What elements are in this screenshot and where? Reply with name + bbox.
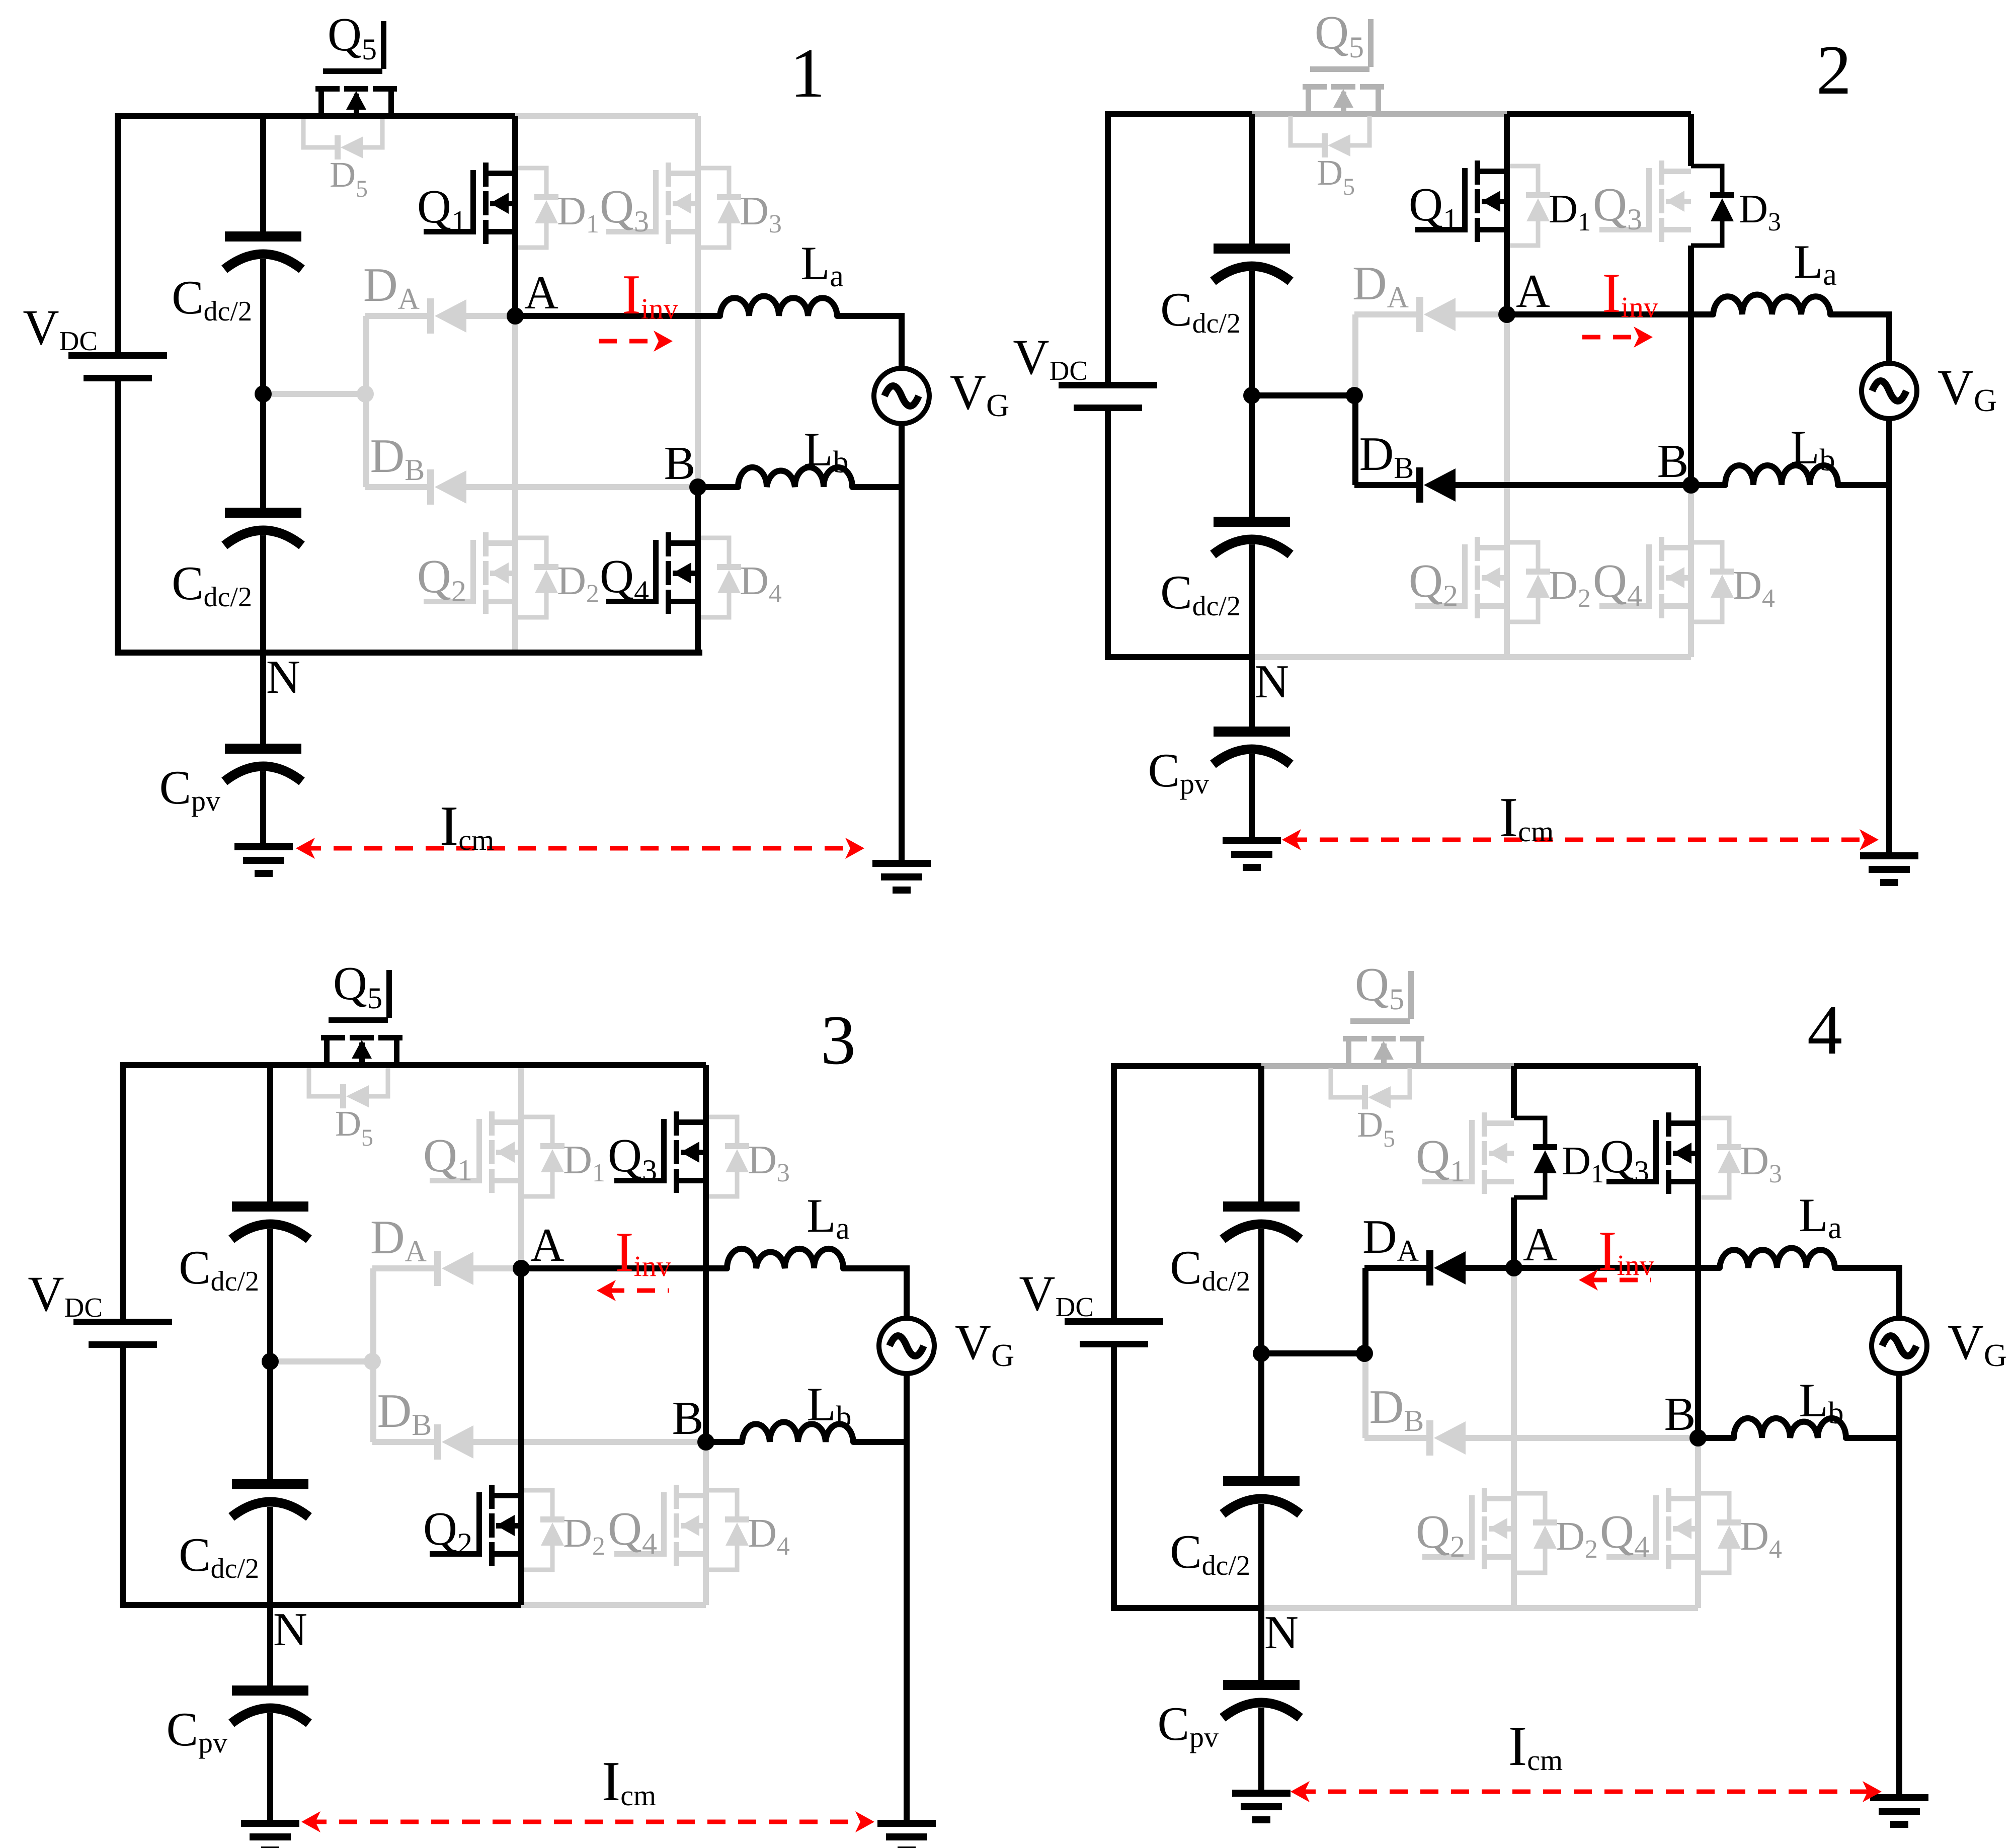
transistor Q2 (on) panel 3 <box>423 1485 521 1566</box>
capacitor Cdc/2 lower panel 3 <box>179 1479 309 1584</box>
capacitor Cdc/2 upper panel 1 <box>172 231 302 327</box>
wire clamp vertical to B-row panel 2 <box>1352 395 1358 485</box>
wire N to Cpv panel 1 <box>260 653 266 744</box>
wire leg A lower (inactive) panel 1 <box>512 316 518 653</box>
transistor Q1 (inactive) panel 4 <box>1416 1112 1514 1194</box>
diode D4 body diode panel 2 <box>1691 542 1775 622</box>
transistor Q4 (inactive) panel 4 <box>1600 1488 1698 1569</box>
svg-text:A: A <box>530 1219 565 1271</box>
diode DB (inactive) panel 4 <box>1364 1420 1698 1456</box>
wire node B to Lb panel 2 <box>1691 482 1725 488</box>
label DA panel 4 <box>1362 1210 1419 1267</box>
diode D3 (conducting) panel 2 <box>1691 166 1781 246</box>
node A panel 2 <box>1498 265 1550 323</box>
wire midpoint tap panel 3 <box>270 1358 372 1364</box>
wire VG to ground panel 3 <box>904 1374 910 1820</box>
wire battery to rails panel 4 <box>1111 1066 1117 1608</box>
diode DA (conducting) panel 4 <box>1364 1250 1514 1285</box>
transistor Q4 (inactive) panel 3 <box>608 1485 706 1566</box>
junction midpoint node panel 2 <box>1243 387 1260 404</box>
svg-text:N: N <box>1264 1606 1299 1659</box>
wire top rail panel 2 <box>1105 111 1252 117</box>
diode DB (conducting) panel 2 <box>1354 467 1691 503</box>
transistor Q5 (on) panel 1 <box>315 9 397 114</box>
current arrow Iinv panel 2 <box>1582 262 1658 348</box>
wire node A to La panel 3 <box>521 1265 727 1271</box>
capacitor Cpv panel 4 <box>1158 1680 1300 1753</box>
svg-text:N: N <box>273 1603 307 1656</box>
diode D5 body diode panel 4 <box>1331 1068 1410 1152</box>
wire midpoint tap panel 2 <box>1252 392 1354 398</box>
wire clamp vertical to A-row panel 3 <box>370 1268 376 1361</box>
wire top rail (inactive) panel 1 <box>515 113 698 119</box>
svg-text:A: A <box>1523 1219 1557 1271</box>
wire leg A lower (inactive) panel 2 <box>1504 314 1510 657</box>
wire N to Cpv panel 4 <box>1258 1608 1264 1680</box>
wire bottom rail panel 2 <box>1105 654 1252 660</box>
wire Cpv to ground panel 3 <box>267 1713 273 1820</box>
wire battery to rails panel 2 <box>1105 114 1111 657</box>
diode D5 body diode panel 2 <box>1291 116 1369 200</box>
junction midpoint tap dot panel 4 <box>1356 1345 1373 1362</box>
wire bottom rail (inactive) panel 4 <box>1261 1605 1698 1611</box>
wire clamp vertical to A-row panel 1 <box>363 316 369 394</box>
transistor Q3 (on) panel 3 <box>608 1111 706 1193</box>
transistor Q5 (inactive) panel 4 <box>1343 958 1424 1064</box>
label DA panel 3 <box>370 1211 427 1268</box>
current arrow Icm panel 1 <box>296 795 864 859</box>
diode DA (inactive) panel 3 <box>372 1251 521 1286</box>
capacitor Cdc/2 upper panel 3 <box>179 1201 309 1297</box>
node A panel 1 <box>507 267 558 325</box>
transistor Q4 (on) panel 1 <box>600 532 698 614</box>
wire La to VG panel 3 <box>843 1268 907 1318</box>
wire clamp vertical to B-row panel 1 <box>363 394 369 487</box>
current arrow Iinv panel 3 <box>597 1221 671 1301</box>
transistor Q5 (inactive) panel 2 <box>1303 7 1384 112</box>
wire battery to rails panel 1 <box>115 116 121 653</box>
label DB panel 1 <box>370 429 425 487</box>
wire battery to rails panel 3 <box>120 1065 126 1605</box>
wire leg B lower (inactive) panel 3 <box>703 1442 709 1605</box>
wire top rail panel 4 <box>1111 1063 1261 1069</box>
diode D4 body diode panel 3 <box>706 1490 790 1570</box>
transistor Q3 (on) panel 4 <box>1600 1112 1698 1194</box>
wire top rail (inactive) panel 2 <box>1252 111 1507 117</box>
wire node B to Lb panel 1 <box>698 484 738 490</box>
inductor La panel 1 <box>720 236 844 316</box>
svg-text:2: 2 <box>1816 31 1851 109</box>
wire N to Cpv panel 2 <box>1249 657 1255 727</box>
svg-text:4: 4 <box>1807 991 1842 1069</box>
diode D1 (conducting) panel 4 <box>1514 1118 1604 1197</box>
current arrow Icm panel 4 <box>1291 1715 1882 1802</box>
wire top rail panel 3 <box>120 1062 706 1068</box>
transistor Q2 (inactive) panel 4 <box>1416 1488 1514 1569</box>
wire N to Cpv panel 3 <box>267 1605 273 1685</box>
wire leg B upper panel 3 <box>703 1065 709 1442</box>
transistor Q4 (inactive) panel 2 <box>1593 537 1691 618</box>
wire leg A lower (inactive) panel 4 <box>1511 1268 1517 1608</box>
wire top rail (inactive) panel 4 <box>1261 1063 1514 1069</box>
wire clamp vertical to B-row panel 3 <box>370 1361 376 1442</box>
ground right panel 3 <box>877 1820 936 1848</box>
diode D1 body diode panel 1 <box>515 168 599 248</box>
wire leg A upper panel 2 <box>1504 114 1510 314</box>
wire bottom rail (inactive) panel 3 <box>521 1602 706 1608</box>
wire node A to La panel 1 <box>515 313 720 319</box>
wire clamp vertical to B-row panel 4 <box>1362 1353 1368 1438</box>
source VG panel 2 <box>1862 359 1997 419</box>
inductor La panel 3 <box>727 1189 850 1268</box>
wire La to VG panel 4 <box>1835 1268 1899 1318</box>
diode DB (inactive) panel 3 <box>372 1424 706 1460</box>
inductor Lb panel 3 <box>742 1378 853 1442</box>
svg-text:B: B <box>664 437 696 490</box>
capacitor Cpv panel 3 <box>167 1685 309 1759</box>
source VG panel 1 <box>874 364 1009 424</box>
current arrow Iinv panel 1 <box>599 264 678 352</box>
label DB panel 2 <box>1359 427 1414 485</box>
node A panel 4 <box>1505 1219 1557 1276</box>
wire leg A lower panel 3 <box>518 1268 524 1605</box>
node B panel 1 <box>664 437 706 496</box>
diode D4 body diode panel 1 <box>698 538 782 617</box>
wire Cpv to ground panel 1 <box>260 771 266 843</box>
ground left panel 3 <box>241 1820 299 1848</box>
diode D5 body diode panel 1 <box>303 118 382 202</box>
wire top rail panel 4 <box>1514 1063 1698 1069</box>
battery VDC panel 2 <box>1013 329 1157 411</box>
wire capacitor column panel 1 <box>260 116 266 653</box>
panel number panel 1 <box>790 34 825 112</box>
diode D3 body diode panel 1 <box>698 168 782 248</box>
wire node B to Lb panel 3 <box>706 1439 742 1445</box>
wire La to VG panel 1 <box>837 316 902 368</box>
node N panel 1 <box>266 651 300 703</box>
inductor Lb panel 4 <box>1734 1374 1846 1438</box>
wire capacitor column panel 3 <box>267 1065 273 1605</box>
source VG panel 3 <box>879 1314 1014 1374</box>
wire midpoint tap panel 4 <box>1261 1350 1364 1356</box>
inductor La panel 4 <box>1720 1188 1842 1268</box>
wire Cpv to ground panel 4 <box>1258 1708 1264 1790</box>
diode D2 body diode panel 3 <box>521 1490 605 1570</box>
wire bottom rail panel 1 <box>115 650 702 656</box>
wire Lb to VG line panel 1 <box>852 484 902 490</box>
wire midpoint tap panel 1 <box>263 391 365 397</box>
svg-text:B: B <box>1657 435 1689 488</box>
label DA panel 2 <box>1352 257 1409 314</box>
diode D2 body diode panel 4 <box>1514 1493 1598 1573</box>
transistor Q1 (on) panel 2 <box>1409 160 1507 242</box>
diode D5 body diode panel 3 <box>309 1067 388 1151</box>
capacitor Cdc/2 upper panel 4 <box>1170 1201 1300 1297</box>
wire leg B lower (inactive) panel 4 <box>1695 1438 1701 1608</box>
wire leg B upper (inactive) panel 1 <box>695 116 701 487</box>
diode D3 body diode panel 4 <box>1698 1118 1782 1197</box>
transistor Q3 (inactive) panel 2 <box>1593 160 1691 242</box>
transistor Q2 (inactive) panel 2 <box>1409 537 1507 618</box>
wire leg B lower panel 1 <box>695 487 701 653</box>
wire leg B lower (inactive) panel 2 <box>1688 485 1694 657</box>
diode D1 body diode panel 2 <box>1507 166 1591 246</box>
svg-text:1: 1 <box>790 34 825 112</box>
battery VDC panel 4 <box>1019 1265 1163 1347</box>
diode D1 body diode panel 3 <box>521 1117 605 1196</box>
wire node A to La panel 4 <box>1514 1265 1720 1271</box>
junction midpoint tap dot panel 3 <box>364 1353 381 1370</box>
node B panel 4 <box>1664 1388 1707 1447</box>
svg-text:3: 3 <box>821 1001 856 1079</box>
wire Lb to VG line panel 3 <box>853 1439 907 1445</box>
junction midpoint node panel 3 <box>262 1353 279 1370</box>
wire bottom rail panel 4 <box>1111 1605 1261 1611</box>
diode D2 body diode panel 1 <box>515 538 599 617</box>
wire clamp vertical to A-row panel 2 <box>1352 314 1358 395</box>
ground right panel 1 <box>872 860 931 894</box>
junction midpoint node panel 1 <box>255 385 272 403</box>
node N panel 3 <box>273 1603 307 1656</box>
wire capacitor column panel 2 <box>1249 114 1255 657</box>
diode D2 body diode panel 2 <box>1507 542 1591 622</box>
battery VDC panel 3 <box>28 1266 172 1348</box>
wire Cpv to ground panel 2 <box>1249 754 1255 837</box>
wire La to VG panel 2 <box>1830 314 1889 363</box>
wire top rail panel 1 <box>115 113 515 119</box>
diode DA (inactive) panel 2 <box>1354 297 1507 332</box>
ground left panel 2 <box>1223 837 1281 871</box>
node B panel 2 <box>1657 435 1700 494</box>
transistor Q5 (on) panel 3 <box>321 957 402 1063</box>
label DB panel 4 <box>1369 1380 1424 1437</box>
wire Lb to VG line panel 2 <box>1838 482 1889 488</box>
capacitor Cdc/2 lower panel 1 <box>172 508 302 613</box>
diode DB (inactive) panel 1 <box>365 469 698 505</box>
node A panel 3 <box>513 1219 565 1277</box>
current arrow Iinv panel 4 <box>1579 1220 1654 1291</box>
wire bottom rail (inactive) panel 2 <box>1252 654 1691 660</box>
transistor Q2 (inactive) panel 1 <box>417 532 515 614</box>
node B panel 3 <box>672 1392 714 1451</box>
wire VG to ground panel 2 <box>1886 419 1892 852</box>
battery VDC panel 1 <box>23 299 167 381</box>
transistor Q3 (inactive) panel 1 <box>600 163 698 244</box>
diode D3 body diode panel 3 <box>706 1117 790 1196</box>
transistor Q1 (on) panel 1 <box>417 163 515 244</box>
capacitor Cdc/2 upper panel 2 <box>1160 244 1291 339</box>
ground left panel 1 <box>234 843 293 877</box>
capacitor Cdc/2 lower panel 4 <box>1170 1476 1300 1581</box>
junction midpoint tap dot panel 2 <box>1346 387 1363 404</box>
svg-text:N: N <box>1255 656 1289 708</box>
label DB panel 3 <box>377 1384 432 1441</box>
node N panel 4 <box>1264 1606 1299 1659</box>
capacitor Cdc/2 lower panel 2 <box>1160 517 1291 622</box>
ground left panel 4 <box>1232 1790 1291 1823</box>
wire leg A upper panel 1 <box>512 116 518 316</box>
wire leg B upper with D3 path panel 2 <box>1688 114 1694 485</box>
junction midpoint node panel 4 <box>1253 1345 1270 1362</box>
wire leg A upper (inactive) panel 3 <box>518 1065 524 1268</box>
source VG panel 4 <box>1872 1314 2007 1374</box>
svg-text:N: N <box>266 651 300 703</box>
panel number panel 3 <box>821 1001 856 1079</box>
ground right panel 4 <box>1870 1794 1928 1828</box>
wire capacitor column panel 4 <box>1258 1066 1264 1608</box>
svg-text:B: B <box>672 1392 704 1444</box>
wire node B to Lb panel 4 <box>1698 1435 1734 1441</box>
wire top rail panel 2 <box>1507 111 1691 117</box>
wire node A to La panel 2 <box>1507 311 1713 317</box>
capacitor Cpv panel 1 <box>159 744 302 817</box>
panel number panel 2 <box>1816 31 1851 109</box>
node N panel 2 <box>1255 656 1289 708</box>
wire VG to ground panel 4 <box>1896 1374 1902 1794</box>
wire leg B upper panel 4 <box>1695 1066 1701 1438</box>
junction midpoint tap dot panel 1 <box>357 385 374 403</box>
inductor La panel 2 <box>1713 235 1837 314</box>
panel number panel 4 <box>1807 991 1842 1069</box>
svg-text:A: A <box>1516 265 1550 317</box>
svg-text:A: A <box>524 267 558 319</box>
label DA panel 1 <box>363 258 420 315</box>
wire VG to ground panel 1 <box>899 424 905 860</box>
diode D4 body diode panel 4 <box>1698 1493 1782 1573</box>
wire bottom rail panel 3 <box>120 1602 521 1608</box>
transistor Q1 (inactive) panel 3 <box>423 1111 521 1193</box>
wire clamp vertical to A-row panel 4 <box>1362 1268 1368 1353</box>
inductor Lb panel 1 <box>738 423 852 487</box>
current arrow Icm panel 2 <box>1282 786 1879 850</box>
diode DA (inactive) panel 1 <box>365 298 515 334</box>
current arrow Icm panel 3 <box>301 1750 874 1832</box>
ground right panel 2 <box>1860 852 1918 886</box>
wire Lb to VG line panel 4 <box>1846 1435 1899 1441</box>
capacitor Cpv panel 2 <box>1148 727 1291 800</box>
svg-text:B: B <box>1664 1388 1696 1440</box>
inductor Lb panel 2 <box>1725 421 1838 485</box>
wire leg A upper with D1 path panel 4 <box>1511 1066 1517 1268</box>
